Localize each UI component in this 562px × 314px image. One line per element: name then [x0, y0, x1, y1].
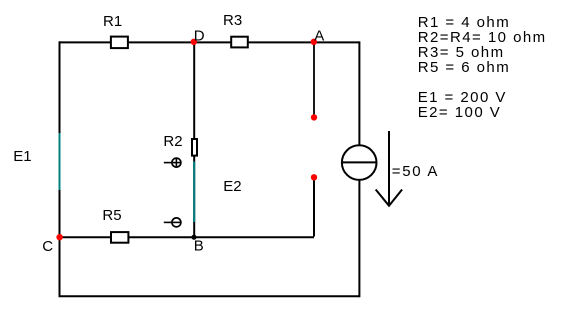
node B	[191, 235, 196, 240]
wire E1 highlighted segment	[59, 133, 61, 190]
svg-text:R5: R5	[102, 207, 121, 224]
wire from lower open terminal down to corner	[313, 177, 315, 236]
wire middle vertical from D to R2	[193, 41, 195, 139]
wire right vertical current source to bottom	[358, 181, 360, 298]
current direction arrow	[376, 131, 402, 206]
svg-text:C: C	[42, 238, 53, 255]
node C	[56, 234, 62, 240]
open terminal lower	[311, 174, 317, 180]
resistor R5	[111, 232, 128, 243]
wire E2 highlighted segment	[193, 162, 195, 223]
svg-text:R5 = 6 ohm: R5 = 6 ohm	[418, 59, 510, 76]
minus terminal of E2	[164, 218, 181, 227]
svg-text:R2: R2	[163, 133, 182, 150]
open terminal upper	[311, 114, 317, 120]
svg-text:R3: R3	[223, 12, 242, 29]
svg-text:E2= 100 V: E2= 100 V	[418, 104, 502, 121]
svg-text:D: D	[194, 28, 205, 45]
plus terminal of E2	[164, 158, 181, 167]
wire from node A down to open terminal	[313, 43, 315, 115]
current source J1	[342, 145, 377, 180]
svg-text:R1: R1	[103, 13, 122, 30]
svg-text:=50 A: =50 A	[392, 163, 439, 180]
wire right vertical top to current source	[358, 41, 360, 145]
node A	[311, 39, 317, 45]
wire middle horizontal C to R5 to B to corner	[59, 236, 315, 238]
wire bottom	[59, 295, 360, 297]
wire left vertical E1 branch	[59, 41, 61, 237]
svg-text:A: A	[314, 28, 324, 45]
wire top from node at top-left corner to right corner	[59, 41, 360, 43]
svg-text:E2: E2	[223, 178, 241, 195]
resistor R1	[111, 37, 128, 49]
node D	[191, 39, 197, 45]
wire middle vertical from R2 to B	[193, 156, 195, 237]
svg-text:E1: E1	[13, 148, 31, 165]
resistor R3	[231, 37, 248, 48]
svg-text:B: B	[194, 238, 204, 255]
values text block	[418, 14, 547, 121]
wire left lower vertical from C to bottom	[59, 237, 61, 296]
resistor R2	[192, 139, 197, 156]
